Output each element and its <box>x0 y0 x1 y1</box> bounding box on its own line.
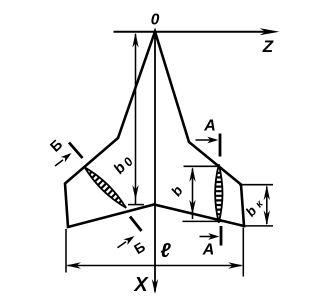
dimension bk line <box>266 187 268 225</box>
label bk <box>243 196 266 220</box>
label b <box>168 182 186 199</box>
b bottom tick <box>183 220 224 222</box>
Z axis arrowhead <box>260 28 280 35</box>
section B-B upper cut bar <box>69 143 83 159</box>
bk bottom tick <box>241 225 273 227</box>
section A-A lower cut bar <box>220 226 223 246</box>
Z axis line <box>114 31 271 33</box>
l left arrowhead <box>66 262 81 268</box>
svg-text:ℓ: ℓ <box>160 240 171 262</box>
svg-text:0: 0 <box>151 12 160 29</box>
section A-A lower arrow <box>200 236 215 238</box>
svg-text:Z: Z <box>262 37 274 56</box>
b0 bottom arrowhead <box>132 185 138 200</box>
bk top arrowhead <box>264 185 270 200</box>
b top arrowhead <box>189 167 195 182</box>
section B-B lower cut bar <box>130 217 142 232</box>
section B-B upper arrow <box>55 160 63 166</box>
dimension b0 line <box>135 34 137 204</box>
label B lower <box>131 238 148 257</box>
b0 top arrowhead <box>132 33 138 48</box>
l right extension line <box>242 228 244 277</box>
X axis line <box>154 32 156 292</box>
section B-B lower arrow <box>118 242 127 248</box>
label B upper <box>48 137 66 156</box>
l right arrowhead <box>228 262 243 268</box>
airfoil section lens at A-A (right wing) <box>214 164 224 222</box>
b0 bottom tick <box>128 204 144 206</box>
l left extension line <box>65 229 67 273</box>
airfoil section lens at B-B (left wing) <box>81 164 130 212</box>
dimension l line <box>68 265 242 267</box>
svg-text:A: A <box>202 242 215 259</box>
dimension b line <box>192 169 194 220</box>
section A-A upper cut bar <box>219 134 222 157</box>
X axis arrowhead <box>152 279 158 294</box>
b top tick <box>184 165 218 167</box>
svg-text:X: X <box>133 274 149 296</box>
b bottom arrowhead <box>189 200 195 215</box>
bk top tick <box>239 184 273 186</box>
label b0 <box>110 152 136 178</box>
section A-A upper arrow <box>196 139 213 141</box>
bk bottom arrowhead <box>264 210 270 225</box>
wing planform outline <box>65 32 244 228</box>
svg-text:A: A <box>203 118 216 135</box>
